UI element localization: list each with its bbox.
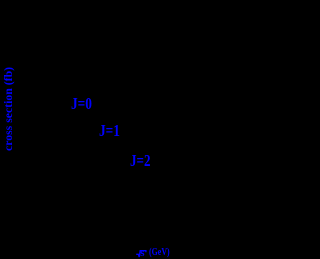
curve label J=1 bbox=[99, 123, 120, 140]
curve label J=0 bbox=[71, 96, 92, 113]
x-axis title: (GeV) bbox=[149, 247, 170, 258]
curve label J=2 bbox=[130, 153, 150, 170]
y-axis title: cross section (fb) bbox=[2, 66, 14, 150]
x-axis title: s under radical bbox=[140, 248, 144, 259]
